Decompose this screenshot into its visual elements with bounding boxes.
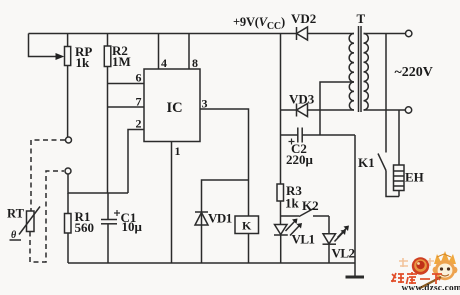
svg-text:RT: RT	[7, 207, 25, 221]
wire transformer tap	[320, 82, 354, 135]
wire ground return	[354, 135, 356, 263]
LED VL1	[275, 225, 288, 235]
svg-text:T: T	[357, 11, 366, 26]
wire pin 3	[200, 109, 249, 216]
svg-text:3: 3	[202, 97, 208, 111]
svg-text:VD3: VD3	[289, 92, 315, 107]
relay K	[235, 216, 259, 234]
wire pin 7	[108, 106, 145, 108]
watermark	[391, 251, 460, 294]
wire pin 8	[188, 34, 190, 70]
svg-text:K1: K1	[358, 155, 375, 170]
watermark mascot crown	[434, 251, 456, 264]
watermark faint search glyphs	[399, 258, 434, 268]
wire pin 2	[128, 130, 144, 194]
wire pin 6	[108, 83, 145, 85]
resistor R3	[277, 184, 284, 201]
ground rail	[68, 262, 355, 264]
wire left drop to RP wiper	[29, 34, 56, 57]
watermark text yi	[420, 278, 430, 280]
diode VD3	[281, 109, 297, 111]
svg-text:1k: 1k	[285, 196, 300, 211]
transformer T secondary winding	[364, 34, 369, 111]
node mains terminal bottom	[405, 107, 411, 113]
transformer core	[358, 26, 360, 112]
watermark mascot head	[435, 260, 455, 280]
wire dashed to RT left	[31, 140, 65, 211]
heater EH	[398, 110, 400, 165]
svg-text:4: 4	[161, 56, 167, 70]
svg-text:+9V(VCC): +9V(VCC)	[233, 15, 285, 32]
thermistor RT	[27, 211, 35, 232]
svg-text:1: 1	[175, 144, 181, 158]
resistor RP	[67, 34, 69, 47]
svg-text:220μ: 220μ	[286, 152, 314, 167]
node mains terminal top	[406, 30, 412, 36]
switch K2	[281, 215, 300, 217]
svg-text:VL1: VL1	[292, 232, 315, 247]
svg-text:K2: K2	[302, 198, 319, 213]
svg-text:IC: IC	[167, 100, 183, 116]
svg-text:1M: 1M	[112, 54, 131, 69]
wire +9V node vertical	[280, 34, 282, 185]
svg-text:~220V: ~220V	[395, 65, 433, 80]
diode VD2	[281, 33, 297, 35]
wire node junction	[68, 174, 128, 193]
wire pin 4	[158, 34, 160, 70]
svg-text:VD2: VD2	[291, 11, 316, 26]
svg-text:www.dzsc.com: www.dzsc.com	[402, 284, 460, 291]
wire mains bottom	[364, 109, 406, 111]
svg-text:10μ: 10μ	[122, 219, 143, 234]
svg-text:VL2: VL2	[332, 246, 355, 261]
wire mains top	[364, 33, 406, 35]
svg-text:560: 560	[75, 220, 95, 235]
watermark mascot staff	[420, 277, 441, 288]
capacitor C2	[281, 134, 298, 136]
capacitor C1	[107, 193, 109, 220]
resistor R2	[107, 34, 109, 47]
svg-text:7: 7	[136, 95, 142, 109]
svg-text:8: 8	[192, 56, 198, 70]
svg-text:VD1: VD1	[208, 211, 232, 226]
svg-text:6: 6	[136, 71, 142, 85]
svg-text:1k: 1k	[76, 55, 91, 70]
watermark text ku	[407, 272, 418, 284]
switch K1 branch	[385, 34, 387, 153]
ground symbol	[354, 263, 356, 276]
watermark text wei	[391, 272, 442, 284]
op-amp U1 IC box	[144, 69, 200, 142]
transformer T primary winding	[349, 34, 354, 111]
svg-text:K: K	[242, 219, 252, 233]
node terminal circle 1	[66, 137, 72, 143]
watermark text xia	[432, 274, 442, 284]
resistor R1	[67, 193, 69, 214]
potentiometer RP wiper arrow	[56, 53, 65, 60]
diode VD1	[202, 180, 249, 263]
node terminal circle 2	[65, 168, 71, 174]
wire pin 1 ground	[171, 142, 173, 264]
wire dashed RT bottom loop	[30, 171, 64, 262]
svg-text:2: 2	[136, 117, 142, 131]
watermark red seal	[412, 257, 429, 274]
LED VL2	[328, 216, 330, 234]
svg-text:EH: EH	[405, 170, 424, 185]
svg-text:θ: θ	[11, 230, 17, 241]
wire top +9V rail	[29, 33, 281, 35]
